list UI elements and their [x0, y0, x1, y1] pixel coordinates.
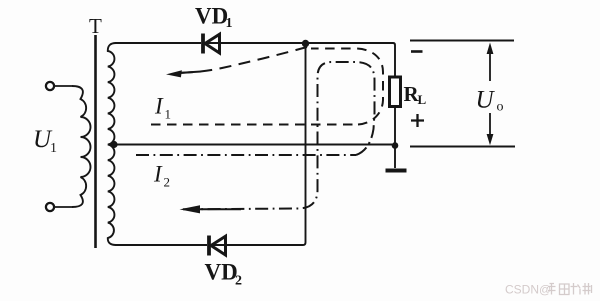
svg-text:U: U: [476, 87, 496, 114]
wire RL bottom to junction: [394, 107, 396, 146]
svg-text:VD: VD: [205, 260, 238, 285]
svg-text:1: 1: [165, 107, 172, 122]
wire bottom (secondary bottom to VD2): [115, 244, 207, 246]
terminal circle bottom: [46, 203, 54, 211]
measurement line bottom: [410, 146, 515, 148]
node B (load bottom junction): [392, 142, 399, 149]
svg-text:VD: VD: [195, 4, 228, 29]
Uo arrow up: [489, 52, 491, 81]
center tap node: [110, 141, 117, 148]
Uo arrow down: [489, 113, 491, 136]
wire primary bottom lead: [55, 206, 73, 208]
terminal circle top: [46, 82, 54, 90]
minus sign: [411, 50, 423, 53]
primary coil: [72, 86, 91, 207]
measurement line top: [410, 40, 514, 42]
svg-text:T: T: [89, 14, 102, 38]
current path I1 (dashed) loop right/top: [311, 49, 383, 125]
ground: [394, 147, 396, 168]
arrow I2: [180, 205, 201, 213]
current path I1 (dashed) horizontal: [151, 124, 358, 126]
svg-text:2: 2: [164, 175, 171, 190]
wire top (VD1 to RL top): [205, 43, 395, 77]
wire primary top lead: [55, 85, 73, 87]
svg-text:L: L: [418, 92, 427, 107]
svg-text:1: 1: [50, 141, 57, 156]
arrow I1: [166, 70, 182, 77]
wire bottom (VD2 to right corner): [211, 43, 306, 245]
current path I1 (dashed) swoop to arrow: [181, 47, 307, 73]
svg-text:I: I: [154, 94, 164, 119]
svg-text:o: o: [497, 100, 504, 115]
resistor RL: [390, 77, 401, 107]
secondary winding: [108, 43, 116, 245]
diode VD1: [203, 34, 220, 54]
watermark CJK glyph blocks: [548, 283, 592, 295]
transformer T core: [94, 35, 97, 248]
svg-text:@: @: [539, 283, 551, 297]
diode VD2: [209, 236, 226, 256]
current path I2 (dash-dot) S-curve and inner loop: [199, 62, 375, 209]
wire center tap to load junction: [117, 144, 392, 146]
wire I2 solid tail at arrow: [183, 208, 241, 210]
node A (top junction): [302, 40, 309, 47]
current path I2 (dash-dot) horizontal: [136, 154, 356, 156]
svg-text:1: 1: [226, 16, 233, 31]
svg-text:2: 2: [235, 274, 242, 289]
svg-text:CSDN: CSDN: [505, 283, 539, 297]
wire top (secondary top to VD1): [115, 42, 201, 44]
svg-text:I: I: [153, 162, 163, 187]
wire I1 solid tail at arrow: [180, 72, 201, 73]
plus sign: [411, 114, 424, 127]
